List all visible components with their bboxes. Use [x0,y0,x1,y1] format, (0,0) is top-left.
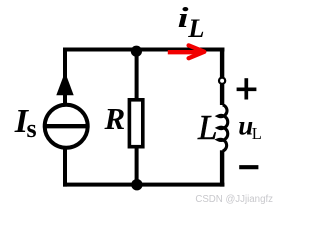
svg-text:L: L [252,124,262,143]
svg-text:CSDN @JJjiangfz: CSDN @JJjiangfz [195,194,273,205]
svg-text:L: L [197,108,217,147]
svg-text:L: L [187,13,204,43]
svg-text:s: s [27,114,37,143]
svg-text:R: R [104,101,126,136]
